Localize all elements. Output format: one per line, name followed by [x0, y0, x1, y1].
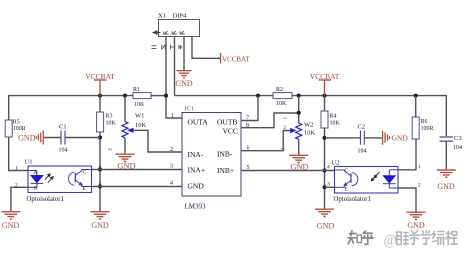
DIP switch X1 body: [159, 20, 200, 37]
svg-text:U1: U1: [25, 159, 33, 166]
node dot U1 pin4 junction: [98, 168, 102, 172]
wire R1 right lead to node: [151, 95, 166, 97]
wire U1 pin4 to IC1 pin3: [92, 169, 183, 171]
svg-text:GND: GND: [18, 133, 36, 142]
svg-text:LM393: LM393: [185, 203, 207, 211]
svg-text:@: @: [384, 232, 397, 248]
ground under U2 right pins: [407, 212, 426, 219]
svg-text:4: 4: [327, 165, 330, 171]
node dot C2 junction: [323, 136, 327, 140]
bian: [433, 231, 444, 245]
svg-text:A: A: [34, 170, 38, 176]
wire U2 LED anode to R6: [398, 139, 416, 170]
wire IC1 pin6 to W2 wiper: [241, 131, 288, 151]
svg-text:R3: R3: [106, 114, 113, 120]
potentiometer W1: [124, 96, 126, 122]
switch glyph 3 inside X1: [180, 31, 185, 34]
wire IC1 pin8 VCC to R2 node: [241, 113, 299, 128]
node dot at R1/X1 junction: [164, 94, 168, 98]
right rail wire from X1 pin2 to right edge: [175, 95, 274, 97]
svg-text:IC1: IC1: [185, 106, 195, 113]
svg-text:GND: GND: [175, 79, 193, 88]
svg-text:Optoisolator1: Optoisolator1: [27, 196, 64, 203]
node dot W2 top junction: [297, 111, 301, 115]
node dot R2 right: [297, 94, 301, 98]
optoisolator U2: [335, 167, 399, 194]
pin number marks row under X1: [152, 45, 183, 50]
svg-text:GND: GND: [91, 221, 109, 230]
svg-text:10K: 10K: [134, 102, 145, 108]
wire R4 bottom down through junctions: [324, 128, 326, 209]
svg-text:R6: R6: [421, 119, 428, 125]
resistor R1: [133, 93, 151, 99]
wire R2 right down to W2: [298, 96, 300, 123]
ground under U2 left pins: [315, 209, 334, 216]
wire U2 pin E to ground line: [325, 186, 335, 188]
wire X1 pin2 to right rail: [174, 37, 176, 96]
ground under X1: [177, 71, 192, 78]
svg-text:INB+: INB+: [217, 166, 234, 175]
svg-text:3: 3: [327, 182, 330, 188]
node dot U2 pin E junction: [323, 185, 327, 189]
svg-text:OUTA: OUTA: [188, 118, 209, 127]
svg-text:10K: 10K: [330, 121, 341, 127]
svg-text:GND: GND: [317, 222, 335, 231]
svg-text:X1: X1: [158, 13, 166, 20]
wire R3 bottom through C1 node down to ground: [99, 132, 101, 211]
resistor R3: [99, 96, 101, 112]
svg-text:W1: W1: [135, 113, 144, 120]
wire U1 pin3 to IC1 pin4: [92, 186, 183, 188]
svg-text:R5: R5: [13, 120, 20, 126]
svg-text:10K: 10K: [304, 130, 316, 137]
ground under U1 right pins: [91, 212, 110, 219]
svg-text:W2: W2: [304, 122, 313, 129]
svg-text:INA+: INA+: [188, 166, 206, 175]
svg-text:GND: GND: [188, 182, 205, 191]
left top rail wire: [9, 96, 133, 120]
svg-text:VCCBAT: VCCBAT: [310, 72, 340, 81]
svg-text:2: 2: [170, 147, 173, 153]
wire IC1 pin7 to rail: [241, 96, 258, 121]
svg-text:OUTB: OUTB: [217, 118, 237, 127]
svg-text:100R: 100R: [13, 126, 26, 132]
wire node to IC1 pin1: [166, 96, 182, 118]
switch glyph 2 inside X1: [172, 31, 177, 34]
svg-text:VCCBAT: VCCBAT: [222, 56, 250, 64]
svg-text:2: 2: [418, 183, 421, 189]
svg-text:3: 3: [170, 163, 173, 169]
node dot VCCBAT right tap: [323, 94, 327, 98]
node dot U1 pin3 junction: [98, 185, 102, 189]
wire X1 pin3 to ground: [183, 37, 185, 71]
svg-text:VCCBAT: VCCBAT: [85, 72, 115, 81]
svg-text:C: C: [345, 168, 349, 174]
potentiometer W2: [296, 123, 302, 139]
capacitor C2: [325, 137, 361, 139]
node dot U2 pin C junction: [323, 169, 327, 173]
svg-text:DIP4: DIP4: [173, 13, 187, 20]
svg-text:INA-: INA-: [188, 150, 204, 159]
svg-text:1: 1: [171, 113, 174, 119]
switch glyph 1 inside X1: [164, 31, 169, 34]
svg-text:10K: 10K: [135, 122, 147, 129]
svg-text:3: 3: [108, 148, 114, 151]
ground (horizontal) left of C1: [36, 131, 43, 145]
node dot VCCBAT left tap: [98, 94, 102, 98]
svg-text:100R: 100R: [421, 126, 434, 132]
svg-text:10K: 10K: [276, 101, 287, 107]
svg-text:GND: GND: [2, 221, 20, 230]
resistor R4: [324, 96, 326, 111]
watermark zhihu: [348, 231, 373, 245]
wire R5 bottom to U1 pin1: [9, 137, 28, 171]
svg-text:C2: C2: [358, 124, 366, 131]
right rail wire continuing to C3: [292, 96, 446, 137]
op-amp IC1 LM393: [182, 113, 241, 197]
svg-text:U2: U2: [332, 160, 340, 167]
node dot W1 top tap: [123, 94, 127, 98]
W2 wiper arrow: [288, 129, 295, 133]
power port VCCBAT (left): [94, 80, 107, 96]
resistor R5: [5, 120, 12, 137]
wire U1 pin2 to ground: [11, 187, 28, 211]
node dot R6 top: [414, 94, 418, 98]
svg-text:R1: R1: [133, 87, 140, 93]
capacitor C3: [440, 137, 453, 141]
svg-text:10K: 10K: [106, 121, 117, 127]
svg-text:1: 1: [418, 164, 421, 170]
svg-text:R2: R2: [276, 87, 283, 93]
ground under W1: [116, 154, 135, 161]
node dot C1 junction: [98, 136, 102, 140]
svg-text:K: K: [34, 186, 38, 192]
svg-text:GND: GND: [437, 182, 455, 191]
svg-text:INB-: INB-: [217, 149, 233, 158]
svg-text:104: 104: [59, 148, 68, 154]
optoisolator U1: [28, 166, 92, 193]
svg-text:VCC: VCC: [223, 127, 238, 136]
ground (horizontal) right of C2: [383, 131, 390, 145]
ground under U1 pin2: [1, 212, 20, 219]
wire W1 wiper to IC1 pin2: [136, 130, 182, 152]
svg-text:Optoisolator1: Optoisolator1: [334, 196, 371, 203]
cheng: [446, 231, 458, 245]
svg-text:104: 104: [453, 145, 462, 151]
svg-text:C: C: [83, 170, 87, 176]
diao: [397, 232, 409, 245]
W1 wiper arrow: [129, 128, 137, 132]
node dot IC1 pin7 pull-up: [256, 94, 260, 98]
resistor R6: [415, 96, 417, 117]
xue: [421, 231, 431, 245]
svg-text:R4: R4: [330, 114, 337, 120]
ground under C3: [437, 170, 456, 177]
ground under W2: [289, 155, 308, 162]
switch glyph arrow at left edge of X1: [153, 31, 161, 34]
wire X1 pin to rail and IC1 pin1: [165, 37, 167, 96]
hu: [362, 231, 373, 244]
zhi: [348, 231, 357, 244]
svg-text:4: 4: [170, 181, 173, 187]
power port VCCBAT (middle): [220, 53, 222, 64]
capacitor C1: [61, 131, 65, 145]
wire IC1 pin5 to U2: [241, 170, 335, 172]
svg-text:C3: C3: [454, 135, 462, 142]
ye: [410, 231, 419, 245]
svg-text:GND: GND: [392, 134, 409, 143]
svg-text:C1: C1: [59, 124, 67, 131]
svg-text:GND: GND: [407, 221, 425, 230]
svg-text:1: 1: [283, 117, 289, 120]
resistor R2: [273, 93, 292, 99]
svg-text:1: 1: [15, 166, 18, 172]
svg-text:104: 104: [358, 149, 367, 155]
power port VCCBAT (right): [319, 80, 332, 96]
wire U2 LED cathode to ground: [398, 188, 416, 212]
wire X1 pin4 to VCCBAT tap: [192, 37, 221, 59]
